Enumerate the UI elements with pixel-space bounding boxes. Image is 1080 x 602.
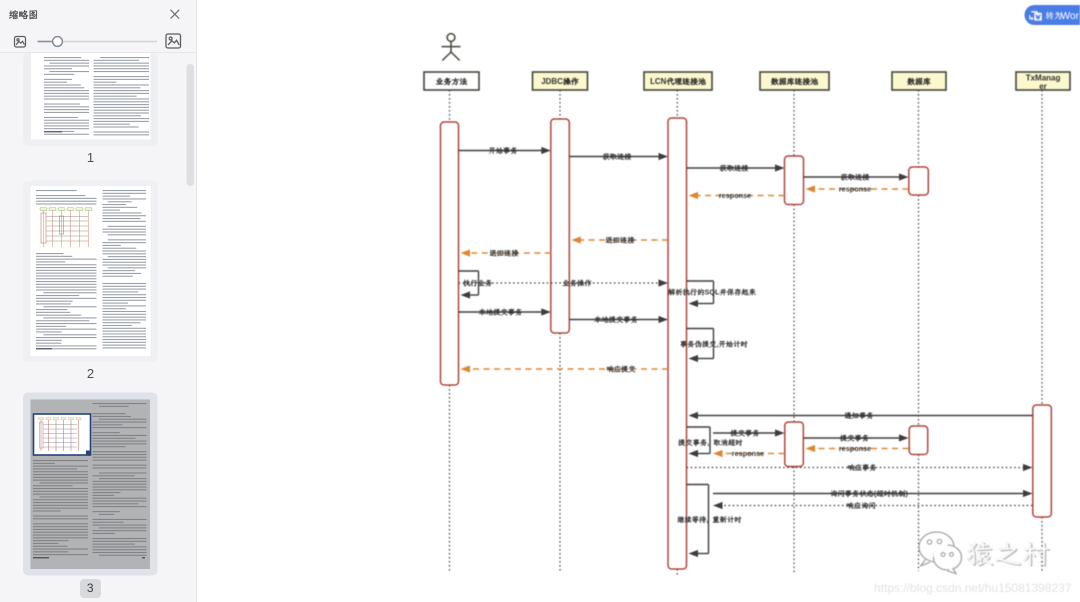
svg-text:er: er (1039, 82, 1047, 91)
svg-text:response: response (839, 444, 871, 453)
svg-text:,: , (707, 438, 709, 447)
svg-text:https://blog.csdn.net/hu150813: https://blog.csdn.net/hu15081398237 (874, 581, 1072, 595)
svg-text:Wor: Wor (1061, 11, 1080, 22)
svg-text:response: response (732, 449, 764, 458)
svg-text:JDBC: JDBC (541, 77, 563, 86)
svg-text:,: , (706, 515, 708, 524)
svg-text:LCN: LCN (650, 77, 667, 86)
svg-text:response: response (839, 185, 871, 194)
svg-text:response: response (719, 191, 751, 200)
svg-text:SQL: SQL (705, 288, 721, 297)
svg-text:,: , (717, 340, 719, 349)
